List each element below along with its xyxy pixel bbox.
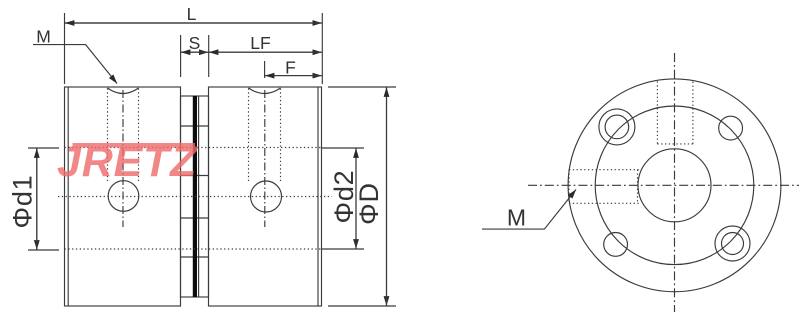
bolt hole bottom-left [604, 233, 628, 257]
top set screw hidden slot [657, 82, 693, 144]
keyway hidden rectangle [569, 170, 641, 204]
disc pack center bar [193, 96, 197, 297]
right hub cross hole circle [251, 181, 282, 212]
bore hidden line bottom [65, 248, 322, 250]
dimension Phi d2 [322, 148, 364, 249]
svg-text:M: M [36, 27, 51, 47]
right hub set screw hole [249, 88, 281, 227]
svg-text:JRETZ: JRETZ [57, 138, 198, 186]
bolt hole bottom-right (with washer) [715, 226, 750, 261]
horizontal center line of side view [58, 196, 332, 198]
bolt hole top-right [719, 116, 743, 140]
dimension L [65, 13, 323, 84]
svg-text:F: F [285, 58, 296, 78]
bore hidden line top [65, 147, 322, 149]
svg-text:S: S [189, 33, 201, 53]
middle spacer section [181, 96, 209, 297]
JRETZ watermark [57, 138, 198, 186]
left hub set screw hole [108, 88, 139, 227]
svg-text:ΦD: ΦD [354, 182, 384, 225]
left hub cross hole circle [108, 181, 139, 212]
dimension S [181, 35, 209, 77]
front view outer circle [568, 79, 781, 292]
left hub body [65, 87, 181, 306]
front view vertical center line [674, 53, 676, 312]
dimension Phi d1 [28, 148, 59, 250]
front view horizontal center line [528, 184, 799, 186]
right hub body [209, 87, 322, 306]
disc pack right line [198, 96, 200, 297]
bolt hole top-left (with washer) [599, 109, 635, 145]
dimension F [265, 61, 322, 78]
front view flange circle [595, 106, 754, 265]
front view bore circle [638, 149, 711, 222]
dimension Phi D [328, 87, 396, 306]
svg-text:M: M [507, 205, 526, 231]
M leader front view [482, 190, 576, 230]
svg-text:LF: LF [250, 33, 270, 53]
dimension LF [209, 51, 322, 53]
svg-text:L: L [187, 4, 197, 24]
svg-text:Φd1: Φd1 [7, 175, 37, 229]
M leader left view [33, 45, 117, 84]
